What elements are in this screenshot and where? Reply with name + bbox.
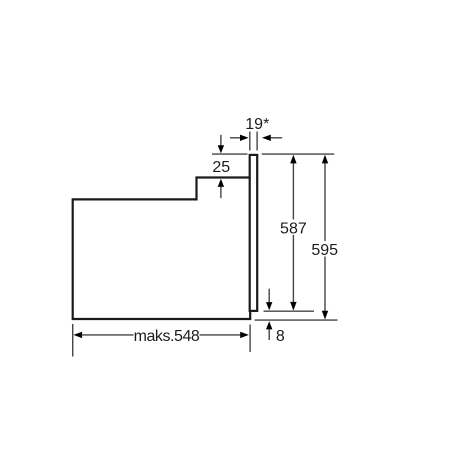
19* extension line right: [256, 132, 258, 151]
svg-text:19*: 19*: [245, 116, 269, 133]
595 dimension line: [322, 155, 328, 320]
svg-text:8: 8: [276, 328, 285, 345]
595 label: [311, 241, 340, 259]
top reference line right segment: [262, 153, 334, 155]
oven body outline: [73, 178, 251, 320]
top reference line left segment: [212, 153, 248, 155]
maks.548 dimension line: [73, 332, 249, 338]
25 arrow up: [218, 179, 224, 199]
maks.548 extension line left: [72, 324, 74, 357]
8 arrow up: [266, 321, 272, 340]
svg-text:25: 25: [212, 159, 230, 176]
19* arrow left: [230, 135, 249, 141]
25 arrow down: [218, 135, 224, 154]
19* extension line left: [249, 132, 251, 151]
bottom reference line upper (panel bottom level): [264, 310, 315, 312]
587 dimension line: [290, 155, 296, 311]
svg-text:maks.548: maks.548: [134, 328, 200, 345]
bottom reference line lower (body bottom level): [255, 319, 338, 321]
oven front panel: [250, 155, 258, 311]
8 arrow down: [266, 289, 272, 311]
svg-text:587: 587: [280, 220, 307, 237]
587 label: [279, 220, 308, 238]
svg-text:595: 595: [311, 242, 338, 259]
19* arrow right: [262, 135, 282, 141]
maks.548 label: [134, 327, 200, 345]
maks.548 extension line right: [249, 325, 251, 353]
